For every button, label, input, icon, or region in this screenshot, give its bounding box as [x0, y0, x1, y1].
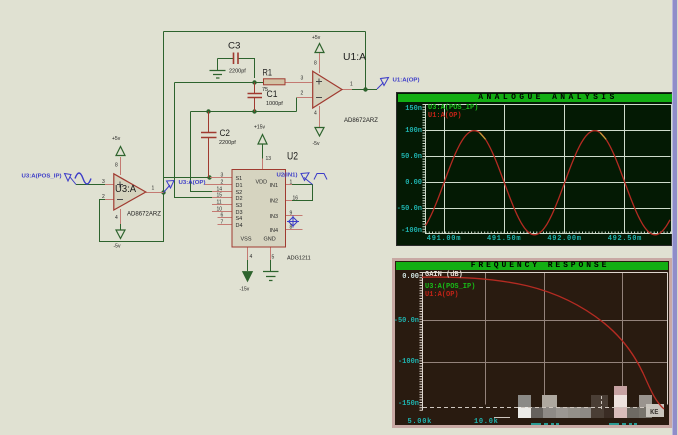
svg-text:8: 8: [314, 61, 317, 67]
svg-text:D4: D4: [236, 223, 243, 229]
svg-text:1: 1: [152, 186, 155, 192]
svg-text:U3:A(OP): U3:A(OP): [179, 180, 206, 186]
svg-text:4: 4: [115, 215, 118, 221]
svg-text:13: 13: [266, 156, 272, 162]
svg-text:1000pf: 1000pf: [266, 101, 283, 107]
svg-text:GND: GND: [264, 237, 276, 243]
svg-text:U1:A: U1:A: [343, 51, 366, 63]
svg-text:R1: R1: [263, 68, 273, 79]
svg-text:S1: S1: [236, 176, 243, 182]
svg-text:AD8672ARZ: AD8672ARZ: [344, 117, 378, 124]
svg-text:VSS: VSS: [241, 237, 252, 243]
svg-text:9: 9: [290, 211, 293, 217]
svg-text:16: 16: [293, 196, 299, 202]
svg-text:U2: U2: [287, 151, 298, 163]
svg-text:IN1: IN1: [269, 183, 278, 189]
svg-text:1: 1: [350, 82, 353, 88]
svg-text:-5v: -5v: [114, 244, 121, 250]
svg-text:5: 5: [272, 255, 275, 261]
svg-text:-15v: -15v: [240, 287, 250, 293]
svg-text:3: 3: [301, 76, 304, 82]
svg-text:11: 11: [217, 200, 222, 206]
svg-text:8: 8: [290, 225, 293, 231]
svg-text:U2(IN1): U2(IN1): [277, 173, 298, 179]
svg-text:15: 15: [217, 193, 223, 199]
svg-text:2200pf: 2200pf: [229, 69, 246, 75]
svg-text:-5v: -5v: [313, 141, 320, 147]
svg-text:2: 2: [301, 91, 304, 97]
svg-text:D2: D2: [236, 196, 243, 202]
svg-text:C3: C3: [228, 41, 241, 52]
svg-text:+5v: +5v: [112, 136, 121, 142]
svg-text:+5v: +5v: [312, 35, 321, 41]
svg-text:4: 4: [314, 111, 317, 117]
svg-text:U1:A(OP): U1:A(OP): [393, 78, 420, 84]
svg-text:3: 3: [221, 173, 224, 179]
svg-text:1: 1: [290, 180, 293, 186]
svg-text:S4: S4: [236, 216, 243, 222]
svg-text:IN3: IN3: [269, 214, 278, 220]
svg-text:AD8672ARZ: AD8672ARZ: [127, 211, 161, 218]
svg-text:2200pf: 2200pf: [219, 140, 236, 146]
svg-text:IN2: IN2: [269, 199, 278, 205]
svg-text:4: 4: [250, 254, 253, 260]
svg-text:C1: C1: [267, 89, 278, 100]
svg-text:U3:A(POS_IP): U3:A(POS_IP): [22, 174, 62, 180]
svg-text:C2: C2: [220, 128, 231, 139]
svg-text:8: 8: [115, 163, 118, 169]
svg-text:7: 7: [221, 220, 224, 226]
svg-text:VDD: VDD: [256, 180, 268, 186]
svg-text:2: 2: [102, 194, 105, 200]
svg-text:D1: D1: [236, 183, 243, 189]
svg-text:U3:A: U3:A: [115, 183, 136, 195]
svg-text:S3: S3: [236, 203, 243, 209]
svg-text:2: 2: [221, 180, 224, 186]
svg-text:+15v: +15v: [254, 125, 265, 131]
svg-text:IN4: IN4: [269, 228, 278, 234]
svg-text:6: 6: [221, 213, 224, 219]
svg-text:ADG1211: ADG1211: [287, 256, 311, 262]
svg-text:3: 3: [102, 179, 105, 185]
